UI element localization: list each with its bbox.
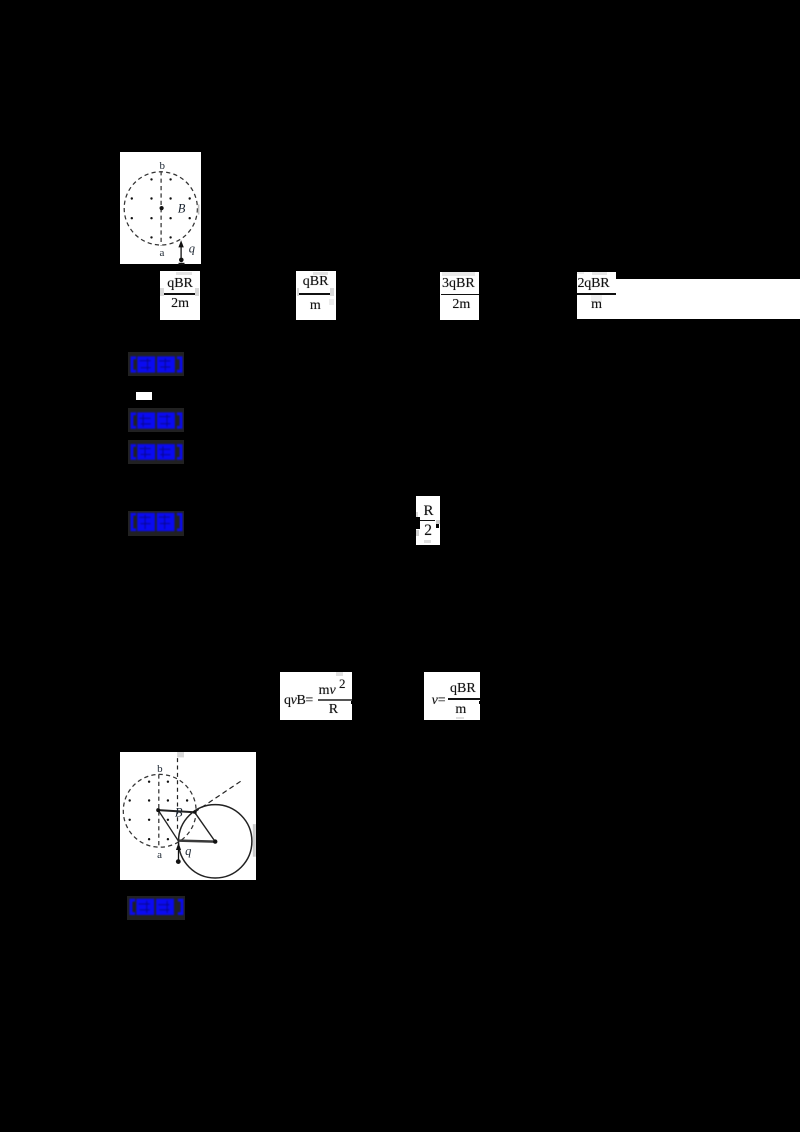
svg-text:q: q bbox=[188, 241, 194, 255]
svg-text:q: q bbox=[185, 844, 191, 858]
svg-text:B: B bbox=[177, 201, 185, 215]
svg-text:a: a bbox=[157, 849, 162, 861]
svg-text:B: B bbox=[175, 805, 183, 819]
svg-text:b: b bbox=[159, 160, 165, 172]
svg-text:a: a bbox=[159, 246, 164, 258]
svg-text:b: b bbox=[157, 763, 163, 775]
